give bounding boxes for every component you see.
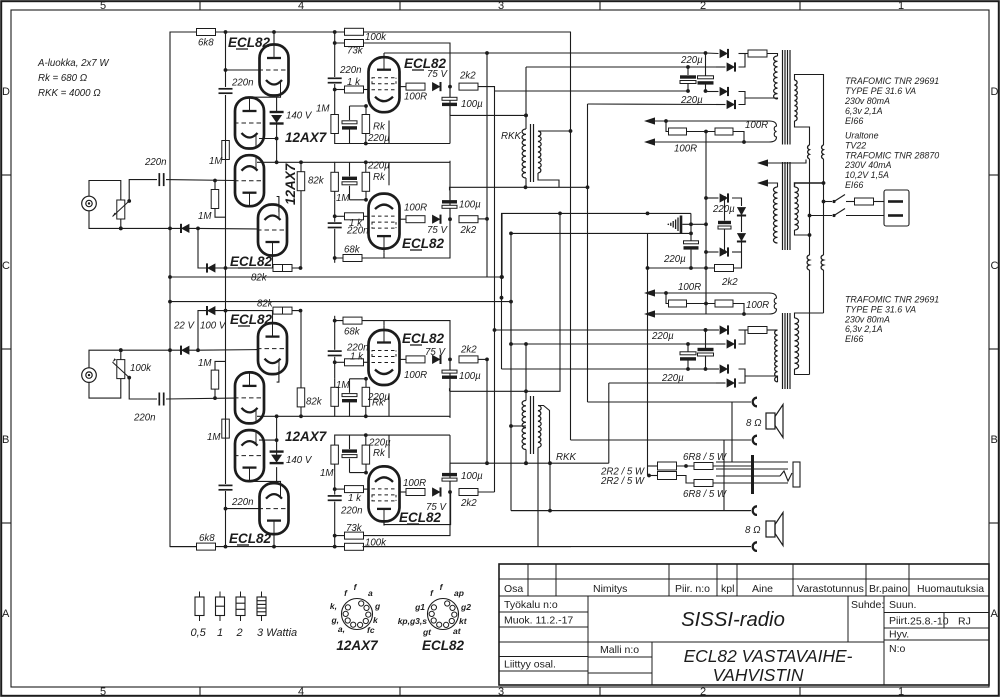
wire cath near2 ch2 stage2 bbox=[365, 406, 367, 416]
svg-text:6R8 / 5 W: 6R8 / 5 W bbox=[683, 489, 727, 500]
wire rail y510 bbox=[511, 510, 750, 512]
wire switch a out bbox=[846, 201, 854, 203]
junction cap a bbox=[686, 65, 690, 69]
wire rect2 stub bbox=[716, 66, 726, 68]
svg-text:230v 80mA: 230v 80mA bbox=[844, 314, 890, 324]
svg-text:Muok. 11.2.-17: Muok. 11.2.-17 bbox=[504, 615, 573, 627]
junction x706 b bbox=[704, 250, 708, 254]
svg-text:Rk: Rk bbox=[373, 172, 386, 183]
svg-text:5: 5 bbox=[100, 0, 106, 12]
wire 100u bottom ch2 stage2 bbox=[449, 379, 451, 388]
wire cathode fb line ch2 bbox=[198, 311, 301, 351]
wire cath stub ch2 stage2 bbox=[365, 379, 367, 388]
svg-text:A: A bbox=[2, 608, 10, 620]
wire rect4 stub bbox=[716, 104, 726, 106]
resistor Rk 680 ch2 stage1 bbox=[362, 445, 370, 464]
terminal sp1 + bbox=[753, 398, 757, 407]
wire bus x550 bbox=[549, 463, 551, 510]
wire tube a plate ch1 bbox=[273, 32, 275, 45]
svg-text:Työkalu n:o: Työkalu n:o bbox=[504, 599, 558, 611]
potentiometer 100k ch1 bbox=[113, 200, 130, 219]
resistor 68k ch1 bbox=[343, 255, 362, 262]
junction fb mid ch2 bbox=[704, 302, 708, 306]
svg-text:A: A bbox=[991, 608, 999, 620]
junction 82k top ch2 bbox=[299, 414, 303, 418]
junction ch1 bbox=[333, 41, 337, 45]
wire cath stub ch2 stage1 bbox=[365, 464, 367, 473]
wire heater d down bbox=[823, 270, 825, 313]
label ECL82 out1 ch2 bbox=[402, 331, 445, 346]
junction out ch1 stage2 bbox=[448, 217, 452, 221]
svg-text:TRAFOMIC TNR 29691: TRAFOMIC TNR 29691 bbox=[845, 76, 939, 86]
svg-text:2: 2 bbox=[236, 627, 243, 639]
svg-text:ECL82: ECL82 bbox=[399, 510, 442, 525]
wire heater arrow bbox=[768, 160, 806, 164]
capacitor 100u ch2 stage2 bbox=[442, 370, 457, 379]
wire out ch1 stage2 bbox=[400, 218, 407, 220]
junction 2k2 bus ch1 bbox=[485, 217, 489, 221]
T1 secondary winding bbox=[795, 80, 798, 121]
wire grid ch1 stage1 bbox=[335, 89, 345, 91]
wire rect1 in bbox=[706, 52, 719, 55]
tube ECL82 triode a ch1 bbox=[259, 45, 290, 96]
wire grid bus ch1 stage1 bbox=[334, 43, 336, 77]
svg-text:D: D bbox=[2, 86, 10, 98]
wire rect out 34 l bbox=[745, 376, 778, 382]
wire bias cap top bbox=[724, 198, 726, 221]
wire RKK2 secondary bottom bbox=[537, 448, 539, 547]
svg-text:1: 1 bbox=[898, 0, 904, 12]
legend resistor 1 watt bbox=[216, 592, 225, 622]
legend resistor 0,5 watt bbox=[195, 592, 204, 622]
wire 82k rail ch1 bbox=[257, 161, 335, 163]
capacitor 220u cathode ch1 stage1 bbox=[342, 121, 357, 130]
resistor 1k ch2 stage1 bbox=[345, 486, 364, 493]
junction switch a tap bbox=[822, 200, 826, 204]
wire to T1 primary bbox=[767, 54, 778, 57]
svg-text:1M: 1M bbox=[336, 193, 350, 204]
junction cath2 ch2 stage1 bbox=[364, 471, 368, 475]
wire 2k2 out ch2 s2 bbox=[478, 358, 487, 360]
speaker 8 ohm ch2 bbox=[766, 513, 783, 546]
svg-text:1M: 1M bbox=[336, 380, 350, 391]
resistor 82k fb ch2 bbox=[273, 307, 292, 314]
svg-text:75 V: 75 V bbox=[427, 69, 448, 80]
frame tick left bbox=[1, 348, 11, 350]
svg-text:220µ: 220µ bbox=[368, 438, 391, 449]
wire cath near2 ch1 stage1 bbox=[365, 134, 367, 144]
wire cath far rail ch2 stage2 bbox=[350, 378, 367, 380]
wire cap d lead2 bbox=[705, 357, 707, 370]
wire out ch2 stage1 bbox=[400, 491, 407, 493]
wire att mid 1 bbox=[677, 465, 695, 467]
wire rect join v bbox=[739, 54, 746, 68]
svg-text:EI66: EI66 bbox=[845, 334, 863, 344]
junction grid 1M ch1 bbox=[213, 179, 217, 183]
wire rect3 stub bbox=[705, 91, 719, 93]
wire 68k line ch1 bbox=[335, 161, 450, 258]
tube ECL82 pentode ch1 stage1 bbox=[369, 57, 400, 112]
svg-text:RKK: RKK bbox=[501, 131, 521, 142]
label ECL82 out2 ch2 bbox=[399, 510, 442, 525]
diode rect ch2 1 bbox=[720, 325, 728, 334]
wire bus x487 lower bbox=[486, 360, 488, 464]
svg-text:220µ: 220µ bbox=[712, 204, 735, 215]
wire rect join v l bbox=[739, 330, 746, 344]
wire jack ground ch1 bbox=[89, 211, 198, 229]
diode 75V ch1 stage1 bbox=[432, 82, 440, 91]
svg-text:220µ: 220µ bbox=[367, 133, 390, 144]
junction bias3 ch1 bbox=[196, 227, 200, 231]
wire 1M top stub ch2 stage2 bbox=[334, 379, 336, 388]
wire rect join 12 l bbox=[739, 329, 749, 331]
wire tube a grid ch1 bbox=[226, 69, 260, 71]
diode rect ch1 3 bbox=[720, 87, 728, 96]
wire 73k line ch2 bbox=[335, 435, 450, 546]
wire 12AX7b cathode ch1 bbox=[277, 197, 279, 213]
wire plate rail ch1 s1 bbox=[384, 52, 706, 54]
svg-text:220µ: 220µ bbox=[651, 331, 674, 342]
resistor 100k ch2 bbox=[345, 543, 364, 550]
frame tick right bbox=[989, 174, 999, 176]
wire 82k top stub ch2 bbox=[300, 406, 302, 416]
wire fb drop ch1 bbox=[666, 121, 668, 132]
wire bias cap bottom bbox=[724, 230, 726, 253]
wire zener top ch2 bbox=[276, 467, 278, 481]
wire rect3 stub l bbox=[705, 368, 719, 370]
svg-text:1M: 1M bbox=[209, 156, 223, 167]
junction fb right ch1 bbox=[742, 140, 746, 144]
T2 primary winding bbox=[775, 330, 778, 382]
junction box left ch1 bbox=[168, 275, 172, 279]
junction RKK1 primary bbox=[524, 114, 528, 118]
tube 12AX7 triode a ch1 bbox=[234, 155, 265, 206]
junction out ch2 stage1 bbox=[448, 490, 452, 494]
capacitor 220n ch1 stage1 bbox=[328, 78, 342, 82]
wire tube a cathode to b plate ch1 bbox=[250, 93, 281, 98]
svg-text:N:o: N:o bbox=[889, 643, 906, 655]
diode rect ch1 2 bbox=[727, 62, 735, 71]
pot wiper junction ch2 bbox=[127, 376, 131, 380]
T1 feedback winding bbox=[744, 121, 777, 142]
svg-text:6k8: 6k8 bbox=[198, 38, 214, 49]
svg-text:2k2: 2k2 bbox=[460, 498, 477, 509]
wire 100u bottom ch1 stage1 bbox=[449, 106, 451, 115]
resistor 1M ch1 stage2 bbox=[331, 172, 339, 191]
chassis ground symbol bbox=[668, 216, 682, 234]
capacitor 220u psu b bbox=[698, 76, 714, 85]
svg-text:100R: 100R bbox=[674, 144, 697, 155]
wire bias to grid2 ch1 bbox=[198, 227, 258, 230]
junction x587 y187 bbox=[586, 185, 590, 189]
junction rail53 end bbox=[704, 51, 708, 55]
junction cath3 ch1 stage2 bbox=[364, 160, 368, 164]
frame tick bottom bbox=[399, 687, 401, 696]
svg-text:4: 4 bbox=[298, 686, 304, 697]
resistor 1M bus ch1 bbox=[222, 141, 230, 160]
frame tick left bbox=[1, 174, 11, 176]
wire rect out 34 bbox=[745, 98, 778, 99]
wire cathode stub ch2 stage2 bbox=[388, 393, 390, 416]
resistor 6k8 ch1 bbox=[197, 29, 216, 36]
wire ground to cap bbox=[690, 224, 692, 240]
junction x706 c bbox=[704, 266, 708, 270]
svg-text:100 V: 100 V bbox=[200, 321, 227, 332]
svg-text:C: C bbox=[991, 260, 999, 272]
svg-text:2k2: 2k2 bbox=[460, 225, 477, 236]
tube ECL82 pentode ch1 stage2 bbox=[369, 194, 400, 249]
wire rail y104 bbox=[588, 103, 723, 106]
svg-text:ECL82 VASTAVAIHE-: ECL82 VASTAVAIHE- bbox=[684, 646, 853, 666]
resistor Rk 680 ch2 stage2 bbox=[362, 387, 370, 406]
svg-text:ap: ap bbox=[454, 588, 464, 598]
resistor 1k ch2 stage2 bbox=[345, 359, 364, 366]
wire ground line bbox=[682, 223, 706, 225]
svg-text:fc: fc bbox=[367, 625, 375, 635]
junction cath3 ch2 stage2 bbox=[364, 414, 368, 418]
capacitor 220u cathode ch2 stage1 bbox=[342, 449, 357, 457]
wire bus x487 bbox=[486, 53, 488, 277]
wire 100u rail ch1 s2 bbox=[450, 187, 588, 190]
svg-text:220n: 220n bbox=[231, 497, 254, 508]
junction switch b tap bbox=[808, 214, 812, 218]
title block grid bbox=[499, 564, 989, 685]
wire cap mid down bbox=[690, 250, 692, 268]
svg-text:100µ: 100µ bbox=[459, 371, 481, 382]
wire fb drop ch2 bbox=[666, 293, 668, 304]
junction cath3 ch1 stage1 bbox=[364, 142, 368, 146]
diode bias ch2 bbox=[181, 346, 189, 355]
frame tick left bbox=[1, 522, 11, 524]
mains plug bbox=[884, 190, 909, 226]
input jack ch1 bbox=[82, 196, 97, 211]
wire rect4 stub l bbox=[716, 382, 726, 384]
svg-text:100R: 100R bbox=[404, 203, 427, 214]
wire cathode stub ch2 stage1 bbox=[388, 435, 390, 458]
svg-text:ECL82: ECL82 bbox=[230, 254, 273, 269]
wire tube a cathode to b plate ch2 bbox=[250, 481, 281, 486]
svg-text:RKK: RKK bbox=[556, 452, 576, 463]
wire 1M upper lead ch1 bbox=[214, 181, 216, 190]
resistor 82k fb ch1 bbox=[273, 265, 292, 272]
wire rect mid v1 bbox=[741, 216, 743, 232]
wire 2k2 out ch1 s2 bbox=[478, 218, 487, 220]
resistor 100R fb ch1 a bbox=[669, 128, 687, 135]
wire 1M top stub ch1 stage2 bbox=[334, 191, 336, 200]
svg-text:a,: a, bbox=[338, 624, 345, 634]
wire rect mid row4b bbox=[732, 251, 742, 253]
wire rail y233 bbox=[511, 232, 691, 234]
wire jack to pot ch1 bbox=[89, 181, 121, 201]
svg-text:a: a bbox=[368, 588, 373, 598]
frame tick top bbox=[199, 1, 201, 10]
junction cap c2 bbox=[686, 367, 690, 371]
svg-text:kpl: kpl bbox=[721, 583, 734, 595]
diode bias ch1 bbox=[181, 224, 189, 233]
resistor 82k anode ch1 bbox=[297, 172, 305, 191]
wire cath stub2 ch1 stage1 bbox=[349, 106, 351, 120]
svg-text:220µ: 220µ bbox=[680, 55, 703, 66]
wire 100u rail ch2 s1 bbox=[450, 462, 609, 464]
wire 100u bottom ch1 stage2 bbox=[449, 190, 451, 199]
resistor 1M bus ch2 bbox=[222, 419, 230, 438]
wire cap b leads bbox=[705, 53, 707, 76]
svg-text:Rk = 680 Ω: Rk = 680 Ω bbox=[38, 73, 88, 84]
svg-text:g,: g, bbox=[330, 615, 339, 625]
wire rect mid v2 bbox=[734, 242, 742, 268]
wire plate ch2 stage2 bbox=[383, 326, 385, 330]
junction cap c bbox=[686, 342, 690, 346]
arrow feedback ch1 a bbox=[644, 117, 655, 124]
wire rect2 stub l bbox=[716, 343, 726, 345]
svg-text:1 k: 1 k bbox=[347, 77, 361, 88]
resistor 2k2 ch2 stage2 bbox=[459, 356, 478, 363]
junction fb ch1 bbox=[664, 119, 668, 123]
junction plate rail ch1 bbox=[485, 51, 489, 55]
junction ch1 bbox=[333, 256, 337, 260]
junction fb right ch2 bbox=[742, 312, 746, 316]
resistor 100R fb ch2 b bbox=[715, 300, 733, 307]
junction bias ch1 bbox=[168, 227, 172, 231]
wire bias line left bbox=[648, 267, 715, 269]
svg-text:220µ: 220µ bbox=[367, 161, 390, 172]
svg-text:220n: 220n bbox=[339, 65, 362, 76]
speaker 8 ohm ch1 bbox=[766, 405, 783, 438]
wire fb right ch1 bbox=[655, 132, 744, 143]
wire 12AX7b plate ch2 bbox=[272, 311, 274, 324]
svg-text:3: 3 bbox=[498, 0, 504, 12]
wire grid bus2 ch2 stage2 bbox=[334, 357, 336, 379]
svg-text:1M: 1M bbox=[198, 358, 212, 369]
svg-text:B: B bbox=[991, 434, 998, 446]
svg-text:12AX7: 12AX7 bbox=[283, 162, 298, 205]
wire 1M lower lead ch1 bbox=[215, 209, 226, 218]
wire cathode stub ch1 stage2 bbox=[388, 162, 390, 185]
svg-text:100µ: 100µ bbox=[459, 200, 481, 211]
resistor 6R8 a bbox=[694, 463, 713, 470]
wire plate ch2 stage1 bbox=[383, 522, 385, 526]
junction x487 y463 bbox=[485, 461, 489, 465]
capacitor 100u ch1 stage1 bbox=[442, 97, 457, 106]
svg-text:Varastotunnus: Varastotunnus bbox=[797, 583, 864, 595]
junction tube b cathode ch1 bbox=[275, 137, 279, 141]
wire grid bus ch2 stage2 bbox=[334, 316, 336, 350]
svg-text:68k: 68k bbox=[344, 245, 361, 256]
wire fb right ch2 bbox=[655, 304, 744, 315]
svg-text:82k: 82k bbox=[308, 176, 325, 187]
resistor 2k2 ch1 stage2 bbox=[459, 216, 478, 223]
label ECL82 ch2 b bbox=[229, 531, 272, 546]
svg-text:D: D bbox=[991, 86, 999, 98]
svg-text:82k: 82k bbox=[257, 299, 274, 310]
junction bias cap b bbox=[723, 250, 727, 254]
T1 primary winding bbox=[774, 56, 778, 99]
wire cath stub ch1 stage2 bbox=[365, 191, 367, 200]
wire grid2 ch2 stage2 bbox=[364, 361, 369, 363]
label ECL82 out1 ch1 bbox=[404, 56, 447, 71]
svg-text:A-luokka, 2x7 W: A-luokka, 2x7 W bbox=[37, 58, 109, 69]
svg-text:1M: 1M bbox=[207, 432, 221, 443]
power transformer core bbox=[783, 162, 791, 250]
frame tick bottom bbox=[599, 687, 601, 696]
junction grid ch1 stage1 bbox=[333, 88, 337, 92]
junction box ch1 bbox=[500, 275, 504, 279]
svg-text:VAHVISTIN: VAHVISTIN bbox=[713, 665, 804, 685]
wire fb top line ch1 bbox=[651, 120, 770, 122]
svg-text:8 Ω: 8 Ω bbox=[745, 525, 761, 536]
junction 2k2 bus ch2 bbox=[485, 358, 489, 362]
junction ground c bbox=[689, 232, 693, 236]
pot bottom junction ch1 bbox=[119, 227, 123, 231]
tube 12AX7 triode b ch2 bbox=[257, 323, 288, 374]
zener diode 140V ch2 bbox=[270, 452, 284, 464]
wire rail y213 bbox=[501, 212, 691, 214]
junction rail330 bbox=[704, 328, 708, 332]
wire zener down ch2 bbox=[276, 416, 278, 456]
junction ch2 bbox=[333, 534, 337, 538]
svg-text:220µ: 220µ bbox=[663, 254, 686, 265]
junction cap d2 bbox=[704, 367, 708, 371]
wire plate rail ch1 s2 bbox=[383, 253, 385, 258]
svg-text:TRAFOMIC TNR 28870: TRAFOMIC TNR 28870 bbox=[845, 150, 939, 160]
terminal sp1 - bbox=[753, 436, 757, 445]
label ECL82 out2 ch1 bbox=[402, 236, 445, 251]
wire fb mid ch2 bbox=[687, 303, 716, 305]
wire cath near rail ch1 stage1 bbox=[335, 134, 450, 144]
wire 12AX7b plate ch1 bbox=[272, 256, 274, 269]
svg-text:100R: 100R bbox=[678, 282, 701, 293]
wire cath stub ch1 stage1 bbox=[365, 106, 367, 115]
svg-text:2k2: 2k2 bbox=[459, 71, 476, 82]
arrow heater supply 2 bbox=[757, 179, 768, 186]
svg-text:0,5: 0,5 bbox=[191, 627, 207, 639]
resistor 1M ch2 stage1 bbox=[331, 445, 339, 464]
svg-text:230V 40mA: 230V 40mA bbox=[844, 160, 891, 170]
resistor Rk 680 ch1 stage1 bbox=[362, 115, 370, 134]
wire 100u rail ch2 s2 bbox=[449, 388, 451, 391]
wire bus x587 bbox=[587, 104, 589, 402]
junction 82k rail ch1 bbox=[275, 160, 279, 164]
resistor 1M grid ch1 bbox=[211, 190, 219, 209]
heater winding a bbox=[808, 145, 810, 159]
wire speaker1 bottom rail bbox=[571, 439, 752, 441]
svg-text:ECL82: ECL82 bbox=[229, 531, 272, 546]
wire RKK1 primary top bbox=[525, 67, 527, 129]
wire 100u rail ch1 s1 bbox=[450, 114, 527, 116]
legend resistor 2 watt bbox=[236, 592, 245, 622]
junction x494 y330 bbox=[493, 328, 497, 332]
switch pole b bbox=[832, 209, 845, 218]
svg-text:4: 4 bbox=[298, 0, 304, 12]
junction out ch1 stage1 bbox=[448, 85, 452, 89]
frame tick right bbox=[989, 522, 999, 524]
wire grid line ch1 bbox=[166, 179, 235, 182]
junction cath3 ch2 stage1 bbox=[364, 433, 368, 437]
junction RKK2 primary bbox=[524, 461, 528, 465]
svg-text:5: 5 bbox=[100, 686, 106, 697]
svg-text:6,3v 2,1A: 6,3v 2,1A bbox=[845, 324, 883, 334]
wire grid bus2 ch1 stage2 bbox=[334, 200, 336, 222]
wire to switch a bbox=[824, 201, 833, 203]
wire cath near3 ch1 stage1 bbox=[349, 130, 351, 144]
wire zener down ch1 bbox=[276, 123, 278, 163]
arrow feedback ch2 a bbox=[644, 289, 655, 296]
svg-text:at: at bbox=[453, 626, 462, 636]
junction grid ch1 stage2 bbox=[333, 214, 337, 218]
svg-text:Suhde:: Suhde: bbox=[851, 599, 884, 611]
wire cathode fb line ch1 bbox=[198, 228, 301, 268]
svg-text:82k: 82k bbox=[251, 273, 268, 284]
